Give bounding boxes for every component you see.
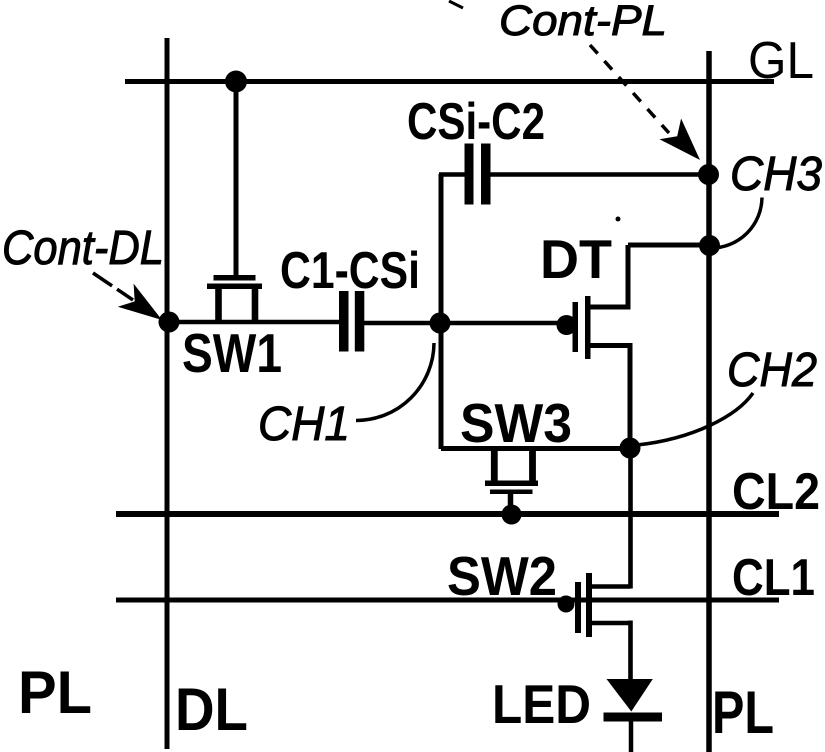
svg-text:C1-CSi: C1-CSi: [280, 242, 420, 300]
capacitor C1-CSi left plate: [339, 291, 349, 352]
svg-text:SW3: SW3: [460, 392, 572, 454]
wire: DT drain corner down: [626, 245, 631, 310]
wire: SW2 source bottom leg: [589, 621, 631, 626]
svg-text:CL1: CL1: [732, 549, 815, 607]
wire: from PL node left to DT drain corner: [628, 243, 709, 248]
transistor SW3 gate bar: [490, 490, 533, 495]
node: SW3 gate junction on CL2: [502, 505, 522, 525]
svg-text:CH3: CH3: [730, 148, 822, 201]
wire: SW1 source-drain wire from DL node to capacitor C1-CSi: [169, 320, 340, 325]
wire: gate line GL horizontal: [125, 79, 774, 84]
transistor SW3 channel bar: [485, 481, 538, 487]
wire: from CSi-C2 right plate to node CH3 on PL: [490, 172, 709, 177]
capacitor CSi-C2 right plate: [481, 144, 491, 205]
svg-text:CSi-C2: CSi-C2: [407, 93, 545, 151]
transistor SW2 channel bar: [586, 573, 592, 637]
transistor SW1 channel bar: [207, 284, 262, 290]
node: Cont-DL junction on DL: [159, 312, 180, 333]
speck: stray scan dash top edge: [449, 1, 463, 8]
capacitor C1-CSi right plate: [355, 291, 365, 352]
leader line: dashed arrow from Cont-PL to node CH3: [590, 45, 669, 133]
svg-text:CH2: CH2: [727, 344, 817, 397]
wire: data line DL vertical: [165, 38, 170, 749]
wire: DT source bottom leg: [588, 343, 630, 348]
transistor DT gate bar: [573, 302, 579, 352]
svg-text:Cont-PL: Cont-PL: [499, 0, 667, 45]
wire: SW2 source down to LED anode: [628, 621, 633, 682]
wire: vertical from CSi-C2 corner through CH1 down to SW3: [439, 174, 444, 449]
transistor SW3 left leg: [491, 446, 498, 481]
svg-text:PL: PL: [712, 679, 774, 746]
svg-text:Cont-DL: Cont-DL: [2, 222, 164, 275]
leader line: dashed arrow from Cont-DL to DL node: [93, 273, 133, 300]
LED cathode bar: [604, 713, 663, 722]
leader line: curve from CH2 label to node CH2: [637, 393, 753, 445]
transistor SW1 gate bar: [214, 275, 256, 281]
wire: control line CL2 horizontal: [116, 511, 779, 517]
svg-text:LED: LED: [492, 673, 591, 735]
transistor SW3 right leg: [529, 446, 536, 481]
svg-text:DL: DL: [175, 676, 248, 743]
wire: control line CL1 horizontal: [116, 598, 779, 603]
transistor SW1 left leg: [215, 288, 222, 321]
leader line: curve from CH1 label to CH1 branch: [356, 343, 434, 421]
node CH2: [620, 438, 641, 459]
node CH1: [430, 313, 451, 334]
transistor DT channel bar: [585, 296, 591, 359]
wire: horizontal stub to CSi-C2 left plate: [439, 172, 465, 177]
node CH3 on PL: [698, 164, 719, 185]
svg-text:SW1: SW1: [182, 322, 282, 384]
transistor SW2 gate arrow on CL1: [558, 596, 575, 613]
svg-text:CH1: CH1: [258, 398, 350, 451]
transistor SW2 gate bar: [575, 582, 581, 633]
svg-text:PL: PL: [18, 659, 92, 726]
node: PL junction feeding DT drain: [699, 235, 720, 256]
wire: power line PL vertical right: [706, 51, 712, 752]
svg-text:SW2: SW2: [447, 545, 557, 607]
wire: SW3 gate wire down to CL2: [508, 494, 514, 515]
transistor DT gate arrow: [557, 315, 577, 335]
wire: SW1 gate wire from GL down: [234, 82, 239, 277]
speck: stray scan dot near DT: [616, 217, 621, 222]
wire: from C1-CSi to node CH1 and DT gate: [364, 321, 560, 326]
capacitor CSi-C2 left plate: [465, 144, 474, 205]
svg-text:CL2: CL2: [732, 463, 820, 521]
LED anode triangle: [607, 679, 653, 712]
wire: SW2 drain top leg: [589, 584, 631, 589]
wire: from node CH2 down across CL2 to SW2 drain corner: [628, 448, 633, 589]
wire: SW3 source-drain wire from CH1 branch to node CH2: [441, 446, 630, 451]
wire: DT drain top leg: [588, 305, 628, 310]
wire: DT source down to node CH2: [628, 343, 633, 448]
node: junction on GL feeding SW1 gate: [225, 71, 247, 93]
leader line: curve from CH3 label to PL junction: [711, 198, 762, 249]
svg-text:DT: DT: [540, 228, 612, 290]
wire: LED cathode down to bottom edge: [629, 719, 634, 752]
transistor SW1 right leg: [252, 288, 259, 321]
svg-text:GL: GL: [748, 32, 814, 90]
